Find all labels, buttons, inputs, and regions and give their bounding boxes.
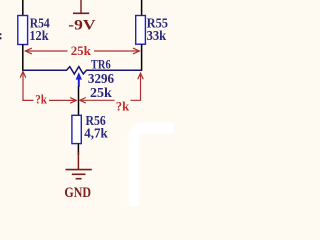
dimension arrow ?k (left section) bbox=[20, 72, 76, 104]
wire (wiper down to R56) bbox=[78, 87, 80, 116]
svg-text:?k: ?k bbox=[116, 99, 130, 114]
wire (R56 bottom to ground) bbox=[77, 144, 79, 155]
potentiometer TR6 (zigzag with wiper) bbox=[23, 67, 142, 87]
wire (R55 bottom down to pot line) bbox=[141, 44, 143, 71]
svg-text:3296: 3296 bbox=[88, 71, 114, 86]
white highlight frame (rounded corner, bottom right) bbox=[134, 128, 224, 240]
wire (top right, into R55) bbox=[141, 0, 143, 16]
dimension arrow 25k (top, between the two branch wires) bbox=[25, 48, 139, 54]
sheet background bbox=[0, 0, 174, 206]
resistor R54 bbox=[18, 15, 50, 44]
wire (R54 bottom down to pot line) bbox=[22, 44, 24, 71]
svg-text:-9V: -9V bbox=[68, 18, 96, 34]
svg-text:33k: 33k bbox=[147, 28, 167, 43]
dimension arrow ?k (right section) bbox=[80, 73, 144, 103]
svg-text:25k: 25k bbox=[90, 86, 112, 101]
svg-text:GND: GND bbox=[64, 185, 91, 201]
wire (top left, into R54) bbox=[22, 0, 24, 16]
partial cut-off glyph at left edge bbox=[0, 33, 1, 39]
power port -9V bbox=[68, 0, 96, 34]
svg-text:?k: ?k bbox=[35, 92, 47, 107]
resistor R56 bbox=[72, 113, 108, 144]
svg-text:4,7k: 4,7k bbox=[84, 126, 108, 141]
ground GND bbox=[66, 152, 92, 179]
svg-text:25k: 25k bbox=[71, 43, 92, 58]
svg-text:TR6: TR6 bbox=[91, 57, 111, 72]
resistor R55 bbox=[136, 15, 169, 44]
svg-text:12k: 12k bbox=[29, 28, 49, 43]
